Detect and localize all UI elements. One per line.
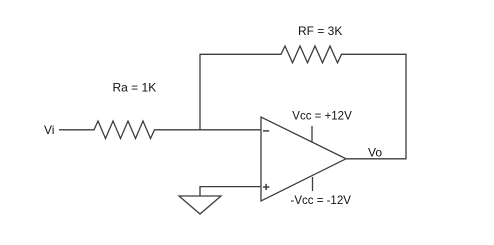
svg-text:-Vcc = -12V: -Vcc = -12V (291, 195, 352, 207)
svg-text:Ra = 1K: Ra = 1K (113, 81, 157, 95)
svg-text:Vi: Vi (44, 123, 54, 137)
svg-text:Vo: Vo (368, 146, 382, 160)
svg-text:RF = 3K: RF = 3K (298, 24, 342, 38)
svg-text:Vcc = +12V: Vcc = +12V (292, 110, 352, 122)
